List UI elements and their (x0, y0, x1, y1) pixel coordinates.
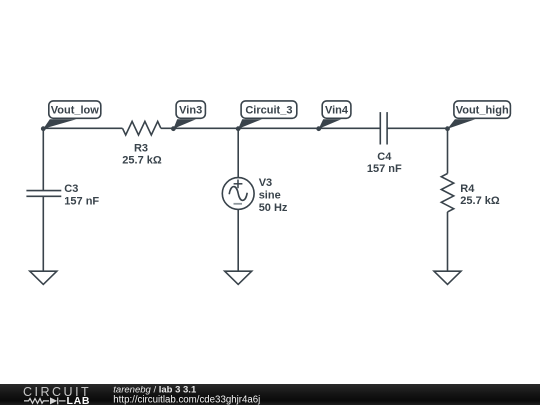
svg-text:Vout_low: Vout_low (51, 105, 100, 117)
label R4 value (460, 183, 500, 207)
svg-text:Vin3: Vin3 (179, 105, 202, 117)
label R3 value (122, 143, 162, 167)
svg-text:Circuit_3: Circuit_3 (245, 105, 292, 117)
svg-text:25.7 kΩ: 25.7 kΩ (122, 155, 162, 167)
label C3 value (64, 183, 99, 208)
capacitor C3 (26, 191, 61, 197)
ground (30, 271, 57, 284)
label V3 value (259, 177, 288, 214)
node Vin3 (171, 101, 205, 131)
node Vin4 (316, 101, 351, 131)
svg-text:R4: R4 (460, 183, 475, 195)
svg-text:Vout_high: Vout_high (456, 105, 509, 117)
svg-text:C4: C4 (377, 151, 392, 163)
ground (225, 271, 252, 284)
capacitor C4 (380, 112, 387, 144)
wire (447, 212, 449, 271)
ground (434, 271, 461, 284)
svg-text:C3: C3 (64, 183, 78, 195)
wire (42, 128, 44, 190)
CircuitLab logo (23, 385, 91, 405)
resistor R4 (441, 174, 453, 212)
svg-text:R3: R3 (134, 143, 148, 155)
wire (43, 127, 122, 129)
svg-text:sine: sine (259, 190, 281, 202)
node Circuit_3 (236, 101, 297, 131)
node Vout_low (41, 101, 101, 131)
svg-text:Vin4: Vin4 (325, 105, 349, 117)
svg-text:50 Hz: 50 Hz (259, 202, 288, 214)
wire (387, 127, 447, 129)
footer text (113, 385, 260, 405)
wire (447, 128, 449, 173)
wire (237, 128, 239, 177)
node Vout_high (445, 101, 510, 131)
label C4 value (367, 151, 402, 175)
svg-text:157 nF: 157 nF (64, 196, 99, 208)
wire (42, 196, 44, 271)
svg-text:V3: V3 (259, 177, 272, 189)
svg-text:http://circuitlab.com/cde33ghj: http://circuitlab.com/cde33ghjr4a6j (113, 395, 260, 405)
svg-text:157 nF: 157 nF (367, 163, 402, 175)
wire (161, 127, 380, 129)
voltage source V3 (222, 178, 254, 210)
resistor R3 (123, 121, 161, 135)
svg-text:25.7 kΩ: 25.7 kΩ (460, 195, 500, 207)
wire (237, 209, 239, 271)
footer bar (0, 384, 540, 405)
svg-text:LAB: LAB (67, 395, 91, 405)
